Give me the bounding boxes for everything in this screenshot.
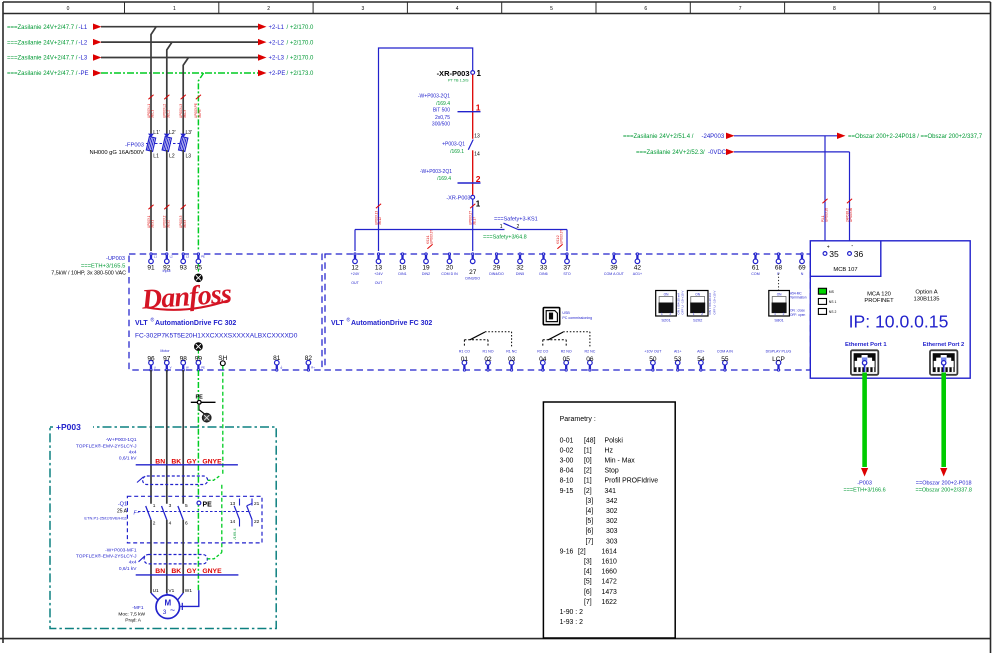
svg-text:38.L2: 38.L2 (166, 110, 170, 118)
svg-text:VLT: VLT (331, 320, 344, 327)
svg-text:UP003.35: UP003.35 (825, 208, 829, 222)
cable 1 marker line (136, 464, 238, 466)
svg-text:81: 81 (273, 355, 281, 362)
svg-text:GNYE: GNYE (202, 568, 222, 575)
terminal 33 (542, 253, 544, 255)
svg-text:13: 13 (230, 501, 236, 507)
svg-text:35: 35 (829, 249, 839, 259)
svg-text:1: 1 (661, 312, 663, 316)
svg-text:COM A IN: COM A IN (717, 349, 733, 353)
svg-text:Hz: Hz (605, 447, 614, 454)
enclosure +P003 (50, 427, 276, 629)
svg-text:AI1+: AI1+ (674, 349, 682, 353)
svg-text:-W+P003-2Q1: -W+P003-2Q1 (418, 94, 450, 100)
svg-text:L2: L2 (169, 154, 175, 160)
svg-text:38.L1: 38.L1 (151, 110, 155, 118)
svg-text:Parametry :: Parametry : (560, 416, 596, 423)
svg-text:38.17: 38.17 (472, 217, 476, 225)
svg-text:/169.1: /169.1 (450, 149, 464, 155)
svg-text:==Obszar 200+2-24P018 /: ==Obszar 200+2-24P018 / (848, 134, 919, 140)
switch S202 (687, 291, 708, 317)
terminal 04 (541, 360, 546, 365)
fuse-switch -FP003 pole 2 (164, 134, 170, 138)
svg-text:GY: GY (187, 568, 197, 575)
switch -Q1 aux contact 13-14 (239, 499, 241, 506)
svg-text:[2]: [2] (578, 548, 586, 555)
svg-text:Motor: Motor (160, 349, 170, 353)
motor PE connection (181, 590, 199, 606)
svg-text:-MF1: -MF1 (132, 605, 144, 611)
svg-text:1610: 1610 (602, 559, 617, 566)
svg-text:5: 5 (550, 6, 553, 12)
svg-text:02: 02 (484, 356, 492, 363)
svg-text:+24V: +24V (374, 272, 383, 276)
svg-text:===Safety+3/64.8: ===Safety+3/64.8 (483, 234, 527, 240)
wire rail -L1 (101, 26, 259, 28)
wire loop top (379, 48, 473, 230)
PE green link upper (197, 264, 199, 274)
terminal 82 (306, 360, 311, 365)
terminal 91 (150, 253, 152, 255)
svg-text:-Q1: -Q1 (118, 502, 127, 508)
earth terminal symbol (203, 414, 211, 422)
svg-text:/ +2/173.0: / +2/173.0 (287, 71, 315, 77)
column header ticks (124, 2, 126, 14)
svg-text:ON: ON (695, 292, 700, 296)
svg-text:-W+P003-1Q1: -W+P003-1Q1 (106, 437, 137, 443)
svg-text:[1]: [1] (584, 478, 592, 485)
terminal SH (220, 361, 225, 366)
svg-text:68: 68 (775, 265, 783, 272)
arrow 0VDC (726, 149, 735, 155)
svg-text:33: 33 (540, 265, 548, 272)
svg-text:SH: SH (218, 355, 227, 362)
arrow 24P003 right (837, 133, 846, 139)
svg-text:USB: USB (562, 311, 570, 315)
svg-text:130B1135: 130B1135 (913, 296, 939, 302)
svg-text:1: 1 (476, 200, 481, 209)
svg-text:38.92: 38.92 (166, 220, 170, 228)
svg-text:12: 12 (351, 265, 359, 272)
svg-text:Ethernet Port 2: Ethernet Port 2 (923, 342, 965, 348)
svg-text:+P003: +P003 (56, 422, 81, 432)
svg-text:3: 3 (163, 609, 167, 616)
svg-text:3: 3 (169, 503, 172, 509)
svg-text:OFF U: -10-+10 V: OFF U: -10-+10 V (712, 291, 716, 315)
terminal 50 (651, 360, 656, 365)
svg-text:L3: L3 (186, 255, 190, 259)
svg-text:+P003-Q1: +P003-Q1 (442, 142, 465, 148)
svg-text:UP003.37: UP003.37 (430, 230, 434, 244)
terminal 55 (723, 360, 728, 365)
wire STO bus right (518, 229, 567, 231)
svg-text:L2: L2 (170, 255, 174, 259)
svg-text:ETN.P1-25/I2/SVB/HI11: ETN.P1-25/I2/SVB/HI11 (84, 515, 127, 520)
svg-text:===ETH+3/165.5: ===ETH+3/165.5 (81, 264, 125, 270)
svg-text:27: 27 (469, 269, 477, 276)
source arrow -L1 (93, 24, 102, 30)
svg-text:0,6/1 kV: 0,6/1 kV (119, 566, 137, 572)
svg-text:V1: V1 (168, 588, 174, 594)
svg-text:[6]: [6] (584, 589, 592, 596)
svg-text:W: W (186, 366, 189, 370)
svg-text:[3]: [3] (586, 498, 594, 505)
svg-text:NH000 gG 16A/500V: NH000 gG 16A/500V (90, 150, 145, 156)
svg-text:+2-L3: +2-L3 (269, 56, 285, 62)
svg-text:Min - Max: Min - Max (605, 458, 636, 465)
wire -0VDC (734, 151, 850, 153)
svg-text:DISPLAY PLUG: DISPLAY PLUG (766, 349, 792, 353)
svg-text:NS 1: NS 1 (829, 300, 837, 304)
svg-text:+24V: +24V (351, 272, 360, 276)
svg-text:1: 1 (774, 312, 776, 316)
svg-text:82: 82 (305, 355, 313, 362)
svg-text:303: 303 (606, 538, 618, 545)
terminal 27 (472, 253, 474, 255)
svg-text:R+: R+ (311, 366, 315, 370)
terminal 35 (823, 252, 827, 256)
terminal 99 (196, 360, 201, 365)
switch -Q1 pole 1 (146, 506, 151, 520)
svg-text:V: V (170, 366, 172, 370)
terminal 97 (165, 360, 170, 365)
svg-text:38.PE: 38.PE (198, 109, 202, 118)
svg-text:[3]: [3] (584, 559, 592, 566)
terminal 68 (777, 253, 779, 255)
svg-text:L1: L1 (153, 154, 159, 160)
svg-text:===Zasilanie 24V+2/47.7 /: ===Zasilanie 24V+2/47.7 / (7, 25, 78, 31)
PE earth symbol lower (195, 343, 203, 351)
svg-text:DIN5: DIN5 (516, 272, 524, 276)
wire -24P003 (734, 135, 841, 137)
terminal 96 (149, 360, 154, 365)
cable marker -W+P003-2Q1 core 1 (458, 111, 481, 113)
cable 2 shield earth link (207, 553, 222, 559)
svg-text:[6]: [6] (586, 528, 594, 535)
svg-text:Ethernet Port 1: Ethernet Port 1 (845, 342, 887, 348)
svg-text:8: 8 (833, 6, 836, 12)
svg-text:ON: ON (664, 292, 669, 296)
svg-text:19: 19 (422, 265, 430, 272)
svg-text:[2]: [2] (584, 488, 592, 495)
svg-text:0,6/1 kV: 0,6/1 kV (119, 456, 137, 462)
terminal 95 (197, 253, 199, 255)
svg-text:Profil PROFIdrive: Profil PROFIdrive (605, 478, 659, 485)
svg-text:/169.4: /169.4 (232, 528, 237, 540)
svg-text:[2]: [2] (584, 468, 592, 475)
svg-text:===Zasilanie 24V+2/47.7 /: ===Zasilanie 24V+2/47.7 / (7, 71, 78, 77)
wire L1 fuse to drive (150, 150, 152, 251)
svg-text:[48]: [48] (584, 437, 596, 444)
link 68 to S801 dotted (778, 274, 780, 291)
svg-text:===ETH+3/166.6: ===ETH+3/166.6 (843, 487, 885, 493)
svg-text:37: 37 (563, 265, 571, 272)
switch -Q1 aux contact 21-22 (251, 499, 253, 506)
svg-text:-L3: -L3 (79, 56, 88, 62)
arrow 24P003 left (726, 133, 735, 139)
svg-text:OUT: OUT (375, 281, 383, 285)
svg-text:MCB 107: MCB 107 (833, 267, 857, 273)
terminal 03 (509, 360, 514, 365)
terminal 98 (181, 360, 186, 365)
svg-text:91: 91 (147, 265, 155, 272)
wire to terminal 13 (378, 230, 380, 252)
svg-text:[7]: [7] (586, 538, 594, 545)
terminal 18 (401, 253, 403, 255)
svg-text:22: 22 (254, 519, 260, 525)
terminal 93 (182, 253, 184, 255)
wire shield SH green (222, 366, 224, 476)
svg-text:6: 6 (185, 520, 188, 526)
svg-text:==Obszar 200+2-P018: ==Obszar 200+2-P018 (916, 480, 972, 486)
svg-text:PE: PE (201, 255, 205, 259)
switch -Q1 pole 2 (162, 506, 167, 520)
svg-text:1614: 1614 (602, 548, 617, 555)
svg-text:13: 13 (375, 265, 383, 272)
svg-text:2: 2 (153, 520, 156, 526)
svg-text:61: 61 (752, 265, 760, 272)
svg-text:Moc: 7,5 kW: Moc: 7,5 kW (118, 611, 145, 617)
svg-text:Stop: Stop (605, 468, 619, 475)
motor lead V1 (166, 593, 169, 595)
svg-text:0-02: 0-02 (560, 447, 574, 454)
terminal 53 (675, 360, 680, 365)
wire red core 2 (472, 150, 474, 195)
switch S801 (769, 291, 790, 317)
svg-text:4x4: 4x4 (129, 449, 137, 455)
wire drop to 37 (566, 230, 568, 252)
svg-text:05: 05 (563, 356, 571, 363)
svg-text:4: 4 (456, 6, 459, 12)
wire drop L2 (167, 42, 172, 137)
svg-text:PE: PE (203, 502, 213, 509)
svg-text:N: N (801, 272, 804, 276)
svg-text:92: 92 (163, 265, 171, 272)
relay R2 changeover contact (542, 340, 544, 347)
cable 1 shield earth link (208, 476, 220, 481)
switch -Q1 linkage (138, 511, 251, 513)
parameter list box (543, 402, 675, 638)
wire W motor 98 (182, 370, 184, 504)
terminal 37 (566, 253, 568, 255)
svg-text:MCA 120: MCA 120 (867, 291, 891, 297)
wire U motor 96 (150, 370, 152, 504)
svg-text:3: 3 (362, 6, 365, 12)
svg-text:R1 NO: R1 NO (483, 349, 494, 353)
svg-text:-FP003: -FP003 (125, 142, 144, 148)
svg-text:38.93: 38.93 (183, 220, 187, 228)
svg-text:2: 2 (476, 174, 481, 184)
destination arrow -L2 (258, 39, 267, 45)
svg-text:DIN3/DO: DIN3/DO (465, 276, 480, 280)
svg-text:-0VDC: -0VDC (708, 150, 727, 156)
svg-text:-P003: -P003 (857, 480, 872, 486)
svg-text:Polski: Polski (605, 437, 624, 444)
svg-text:L3': L3' (186, 130, 193, 136)
LED NS1 (818, 299, 826, 305)
svg-text:39: 39 (610, 265, 618, 272)
wire drop L1 (151, 27, 156, 137)
wire L3 fuse to drive (182, 150, 184, 251)
svg-text:OFF: open: OFF: open (790, 313, 805, 317)
svg-text:DIN1: DIN1 (398, 272, 406, 276)
svg-text:NS 2: NS 2 (829, 310, 837, 314)
svg-text:2: 2 (783, 312, 785, 316)
svg-text:5: 5 (185, 503, 188, 509)
connector RJ45 port 2 (930, 350, 957, 375)
wire rail -PE (101, 72, 259, 74)
fuse linkage dashed (146, 143, 183, 145)
svg-text:~: ~ (170, 605, 175, 615)
svg-text:1: 1 (476, 103, 481, 113)
wire PE motor green (197, 370, 199, 402)
svg-text:25 A: 25 A (117, 508, 128, 514)
svg-text:96: 96 (147, 356, 155, 363)
svg-text:+: + (827, 244, 830, 250)
svg-text:0-01: 0-01 (560, 437, 574, 444)
motor lead W1 (178, 593, 184, 600)
svg-text:1: 1 (500, 224, 503, 230)
ethernet cable arrow 1 (861, 468, 868, 477)
svg-text:93: 93 (180, 265, 188, 272)
svg-text:STO: STO (563, 272, 571, 276)
svg-text:54: 54 (697, 356, 705, 363)
svg-text:+2-L1: +2-L1 (269, 25, 285, 31)
svg-text:2x0,75: 2x0,75 (435, 115, 450, 121)
relay R1 changeover contact (463, 340, 465, 347)
switch -Q1 box (127, 496, 262, 543)
svg-text:20: 20 (446, 265, 454, 272)
svg-text:99: 99 (195, 356, 203, 363)
svg-text:PT TB 1,5/S: PT TB 1,5/S (448, 79, 469, 83)
svg-text:2: 2 (670, 312, 672, 316)
svg-text:⏚: ⏚ (280, 365, 283, 370)
terminal 20 (448, 253, 450, 255)
PE earth symbol upper (195, 274, 203, 282)
svg-text:18: 18 (399, 265, 407, 272)
svg-text:BK: BK (171, 568, 181, 575)
svg-text:-UP003: -UP003 (106, 256, 125, 262)
svg-text:8-04: 8-04 (560, 468, 574, 475)
wire V Q1 to motor (166, 520, 168, 593)
svg-text:9-15: 9-15 (560, 488, 574, 495)
svg-text:Prąd: A: Prąd: A (125, 618, 142, 624)
svg-text:2: 2 (517, 224, 520, 230)
ethernet cable arrow 2 (940, 468, 947, 477)
svg-text:[5]: [5] (584, 579, 592, 586)
svg-text:S801: S801 (774, 317, 784, 322)
terminal 39 (613, 253, 615, 255)
svg-text:50: 50 (649, 356, 657, 363)
terminal 54 (699, 360, 704, 365)
switch -Q1 pole 3 (178, 506, 183, 520)
svg-text:FC-302P7K5T5E20H1XXCXXXSXXXXAL: FC-302P7K5T5E20H1XXCXXXSXXXXALBXCXXXXD0 (135, 333, 298, 340)
destination arrow -L3 (258, 54, 267, 60)
svg-text:38.91: 38.91 (151, 220, 155, 228)
svg-text:BN: BN (155, 568, 165, 575)
svg-text:69: 69 (798, 265, 806, 272)
svg-text:L1: L1 (154, 255, 158, 259)
svg-text:1: 1 (153, 503, 156, 509)
wire drop to 35 (824, 136, 826, 252)
svg-text:PE: PE (201, 366, 205, 370)
svg-text:PROFINET: PROFINET (864, 298, 894, 304)
svg-text:R2 CO: R2 CO (537, 349, 548, 353)
svg-text:97: 97 (163, 356, 171, 363)
svg-text:+2-L2: +2-L2 (269, 40, 285, 46)
switch S201 (656, 291, 677, 317)
LED MS (818, 288, 826, 294)
PE green link lower (197, 351, 199, 361)
wire red core 1 (472, 74, 474, 138)
svg-text:2: 2 (701, 312, 703, 316)
svg-text:===Zasilanie 24V+2/51.4 /: ===Zasilanie 24V+2/51.4 / (623, 134, 694, 140)
svg-text:4x4: 4x4 (129, 560, 137, 566)
svg-text:1-93 : 2: 1-93 : 2 (560, 619, 584, 626)
svg-text:===Zasilanie 24V+2/47.7 /: ===Zasilanie 24V+2/47.7 / (7, 40, 78, 46)
motor -MF1 (156, 595, 180, 619)
svg-text:PC commissioning: PC commissioning (562, 316, 592, 320)
svg-text:[1]: [1] (584, 447, 592, 454)
terminal 92 (166, 253, 168, 255)
svg-text:36: 36 (854, 249, 864, 259)
terminal 42 (636, 253, 638, 255)
destination arrow -PE (258, 70, 267, 76)
svg-text:S202: S202 (693, 317, 703, 322)
svg-text:Termination: Termination (790, 296, 807, 300)
svg-text:LCP: LCP (772, 356, 785, 363)
source arrow -L2 (93, 39, 102, 45)
terminal 06 (588, 360, 593, 365)
wire rail -L3 (101, 57, 259, 59)
svg-text:3-00: 3-00 (560, 458, 574, 465)
terminal 19 (425, 253, 427, 255)
svg-text:ON: ON (777, 292, 782, 296)
svg-text:13: 13 (474, 133, 480, 139)
svg-text:DIN4/DO: DIN4/DO (489, 272, 504, 276)
svg-text:VLT: VLT (135, 320, 148, 327)
svg-text:DIN2: DIN2 (422, 272, 430, 276)
svg-text:29: 29 (493, 265, 501, 272)
svg-text:6: 6 (644, 6, 647, 12)
svg-text:AutomationDrive FC 302: AutomationDrive FC 302 (351, 320, 432, 327)
svg-text:1: 1 (693, 312, 695, 316)
terminal 61 (754, 253, 756, 255)
connector -XR-P003 pin 1 top (471, 71, 475, 75)
wire W Q1 to motor (182, 520, 184, 593)
svg-text:302: 302 (606, 508, 618, 515)
svg-text:®: ® (347, 317, 351, 324)
svg-text:04: 04 (539, 356, 547, 363)
motor lead U1 (151, 593, 158, 600)
svg-text:AO1+: AO1+ (633, 272, 642, 276)
svg-text:/ +2/170.0: / +2/170.0 (287, 40, 315, 46)
svg-text:BiT 500: BiT 500 (433, 107, 450, 113)
svg-text:[4]: [4] (586, 508, 594, 515)
terminal 69 (801, 253, 803, 255)
svg-text:DIN6: DIN6 (539, 272, 547, 276)
terminal 29 (495, 253, 497, 255)
svg-text:-: - (851, 243, 853, 249)
svg-text:[0]: [0] (584, 458, 592, 465)
svg-text:/ +2/170.0: / +2/170.0 (287, 56, 315, 62)
terminal 36 (848, 252, 852, 256)
LED NS2 (818, 309, 826, 315)
terminal 01 (462, 360, 467, 365)
svg-text:01: 01 (461, 356, 469, 363)
svg-text:53: 53 (674, 356, 682, 363)
svg-text:F~: F~ (134, 511, 140, 517)
